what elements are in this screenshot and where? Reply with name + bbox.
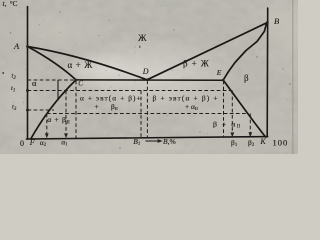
- svg-text:E: E: [216, 68, 222, 77]
- svg-text:α + Ж: α + Ж: [68, 60, 94, 70]
- svg-text:β + αII: β + αII: [213, 119, 240, 129]
- point on solvus at t1: [65, 90, 67, 92]
- alloy I vertical tie segment: [57, 80, 59, 100]
- solidus A-C: [28, 47, 77, 80]
- dashed vertical beta1: [231, 91, 233, 136]
- liquidus D-B: [147, 23, 267, 80]
- point B: [266, 21, 269, 24]
- dashed vertical alpha1: [65, 91, 67, 137]
- svg-text:B,%: B,%: [163, 137, 176, 146]
- dashed vertical B1 composition: [140, 91, 142, 139]
- liquidus A-D: [28, 47, 148, 80]
- eutectic line C-D-E: [76, 79, 223, 81]
- right axis (100% B): [266, 8, 269, 137]
- scan speckles: [3, 4, 290, 151]
- axis point t3: [26, 109, 29, 112]
- point A: [26, 45, 29, 48]
- solidus B-E: [223, 23, 267, 81]
- svg-text:C: C: [78, 80, 83, 88]
- fleck left of t2: [2, 72, 4, 74]
- temperature axis (left): [27, 7, 29, 139]
- point E: [222, 79, 225, 82]
- t3 dashed isotherm to alpha solvus: [28, 109, 55, 111]
- extra flecks: [10, 11, 291, 149]
- dashed vertical below D eutectic composition: [146, 81, 148, 139]
- svg-text:B: B: [274, 16, 279, 26]
- svg-text:β + Ж: β + Ж: [183, 58, 210, 68]
- point C: [75, 79, 78, 82]
- page edge shadow right: [292, 0, 294, 154]
- speck near liquidus: [139, 46, 140, 48]
- dashed vertical below C: [75, 81, 77, 139]
- svg-text:K: K: [259, 137, 266, 146]
- t1 dashed isotherm across to beta solvus: [28, 90, 231, 92]
- svg-text:A: A: [13, 41, 20, 51]
- svg-text:t,: t,: [3, 0, 7, 8]
- svg-text:Ж: Ж: [138, 34, 147, 44]
- composition axis (bottom): [27, 137, 268, 139]
- dashed vertical alpha2: [46, 114, 48, 137]
- svg-text:α: α: [32, 78, 37, 88]
- paper background: [0, 0, 298, 154]
- svg-text:+: +: [95, 102, 99, 111]
- lower dashed tie line alpha2 to beta solvus: [47, 113, 249, 115]
- arrow of B,% axis label: [146, 139, 163, 143]
- solvus E-K: [223, 80, 265, 137]
- svg-text:°С: °С: [10, 0, 18, 8]
- svg-text:0: 0: [20, 139, 24, 148]
- svg-text:F: F: [29, 138, 35, 147]
- dashed vertical beta2: [249, 114, 251, 136]
- t2 dashed isotherm to C: [28, 79, 76, 81]
- dashed vertical below E: [223, 81, 225, 138]
- svg-text:D: D: [142, 67, 149, 76]
- point D: [146, 78, 149, 81]
- svg-text:100: 100: [273, 137, 289, 147]
- arrowhead alpha2: [45, 133, 49, 138]
- solvus C-F: [31, 80, 76, 139]
- svg-text:β: β: [244, 73, 249, 83]
- arrowhead alpha1: [64, 133, 68, 138]
- arrowhead beta1: [230, 132, 234, 137]
- axis point t1: [26, 89, 29, 92]
- arrowhead beta2: [248, 132, 252, 137]
